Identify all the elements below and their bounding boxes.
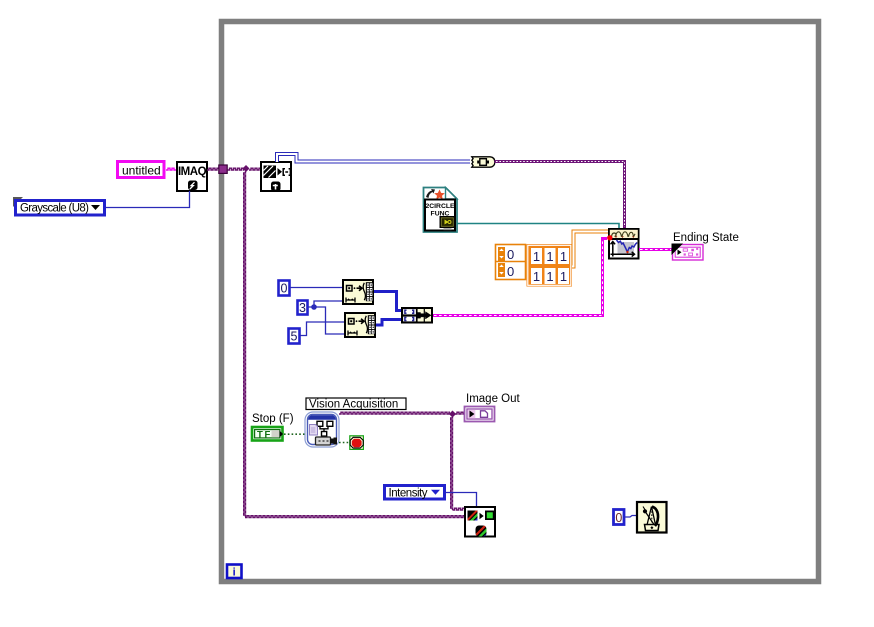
image wire junction node — [242, 165, 249, 172]
image wire junction down to GetPalette — [451, 416, 464, 510]
variant wire conversion node to peak detector — [495, 162, 625, 229]
boolean wire Stop constant to Vision Acquisition — [284, 433, 305, 435]
svg-text:i: i — [233, 567, 236, 579]
image wire junction at Image Out — [449, 410, 456, 417]
IMAQ ImageToArray node — [261, 162, 291, 191]
Vision Acquisition express VI — [305, 412, 339, 447]
ring constant Intensity — [385, 486, 445, 500]
ramp pattern node 2 — [345, 313, 375, 337]
svg-text:5: 5 — [291, 330, 298, 344]
svg-text:Intensity: Intensity — [389, 488, 428, 500]
svg-text:0: 0 — [281, 282, 288, 296]
svg-text:Vision Acquisition: Vision Acquisition — [309, 399, 398, 411]
numeric constant 0 — [279, 281, 290, 296]
numeric constant 3 — [298, 301, 308, 315]
wire junction to ImageToArray — [249, 168, 260, 170]
svg-text:1: 1 — [533, 249, 540, 264]
label Stop (F) — [252, 413, 294, 425]
svg-text:T: T — [257, 430, 263, 441]
svg-text:3: 3 — [299, 301, 306, 315]
svg-text:2CIRCLE: 2CIRCLE — [425, 203, 455, 210]
numeric constant 5 — [289, 329, 300, 344]
array index frame — [496, 245, 526, 280]
svg-text:untitled: untitled — [122, 164, 161, 178]
svg-text:Image Out: Image Out — [466, 393, 520, 405]
svg-text:0: 0 — [507, 247, 514, 262]
indicator Ending State — [672, 244, 704, 261]
array wire ramp 2 to build array — [376, 320, 401, 326]
peak detector node — [609, 229, 639, 259]
wire IMAQ Create image out to loop tunnel — [207, 168, 219, 170]
stop button constant — [350, 436, 364, 450]
label Vision Acquisition — [306, 398, 406, 411]
wire constant 0 to ramp pattern 1 — [290, 287, 342, 289]
boolean wire Vision Acquisition to stop button — [339, 442, 349, 444]
svg-text:IMAQ: IMAQ — [178, 166, 207, 178]
svg-text:Grayscale (U8): Grayscale (U8) — [20, 203, 89, 215]
label Ending State — [673, 232, 739, 244]
svg-text:1: 1 — [560, 269, 567, 284]
wire constant 3 branches — [308, 301, 344, 334]
VI reference constant 2CIRCLE FUNC — [424, 188, 458, 233]
svg-text:0: 0 — [615, 511, 622, 525]
conversion node (flatten) — [472, 157, 495, 167]
string constant untitled — [118, 162, 165, 178]
refnum wire VI ref to peak detector — [457, 224, 619, 229]
svg-text:1: 1 — [560, 249, 567, 264]
ring constant Grayscale (U8) — [13, 197, 105, 215]
svg-text:F: F — [265, 430, 271, 441]
image wire junction to Image Out indicator — [455, 412, 464, 414]
wire 0 to wait node — [624, 516, 636, 518]
2D array constant of ones — [527, 245, 572, 287]
svg-text:1: 1 — [546, 249, 553, 264]
while loop border — [222, 22, 819, 582]
boolean constant Stop (F) — [252, 427, 283, 441]
svg-text:1: 1 — [546, 269, 553, 284]
2D array wire ones constant to peak detector — [572, 232, 609, 267]
build array node — [402, 308, 432, 323]
wire tunnel to junction — [228, 168, 245, 170]
image wire junction down left side — [244, 171, 246, 517]
junction dot on wire 3 — [311, 304, 317, 310]
2D array wire ImageToArray to conversion node — [277, 154, 470, 162]
image wire bottom run to GetPalette — [245, 516, 464, 518]
loop tunnel (image wire) — [219, 165, 227, 173]
indicator Image Out — [465, 407, 495, 422]
svg-text:0: 0 — [507, 264, 514, 279]
ramp pattern node 1 — [343, 280, 373, 304]
wire constant 5 to ramp pattern 2 — [300, 322, 344, 336]
IMAQ GetPalette node — [465, 507, 495, 541]
label Image Out — [466, 393, 520, 405]
image wire Vision Acquisition to Image Out — [339, 412, 450, 414]
wire Intensity ring to GetPalette — [446, 493, 477, 507]
cluster wire peak detector to Ending State — [639, 248, 672, 251]
svg-text:Ending State: Ending State — [673, 232, 739, 244]
numeric constant 0 (wait) — [614, 510, 625, 525]
IMAQ Create node — [177, 162, 207, 191]
svg-text:Stop (F): Stop (F) — [252, 413, 294, 425]
loop iteration terminal i — [227, 565, 242, 579]
wait (ms) node — [637, 502, 667, 533]
coercion dot on peak detector input — [607, 235, 612, 240]
svg-text:1: 1 — [533, 269, 540, 284]
wire Grayscale ring to IMAQ Create bottom — [106, 191, 190, 208]
array-of-clusters wire build array to peak detector — [433, 239, 607, 316]
array wire ramp 1 to build array — [374, 292, 401, 311]
wire string untitled to IMAQ Create — [166, 168, 176, 170]
